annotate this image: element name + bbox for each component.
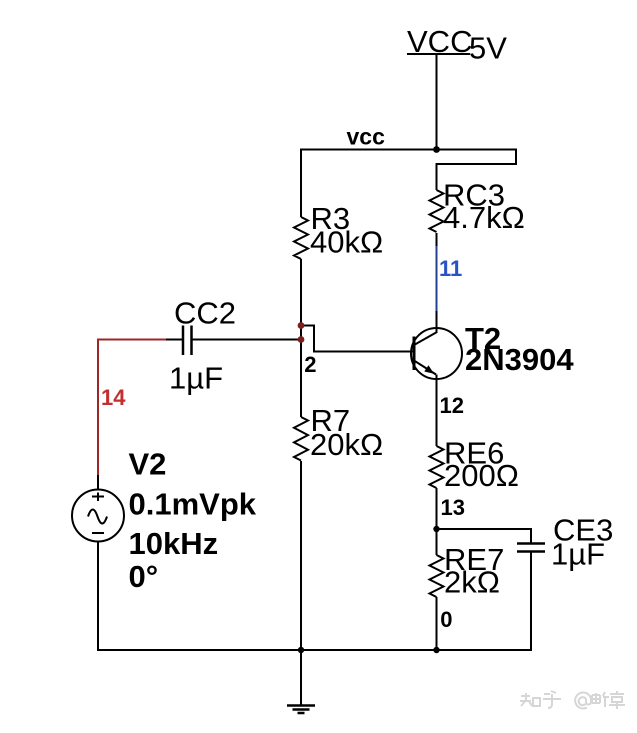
wire V2 top pin <box>97 475 99 490</box>
wire RC3 top <box>436 163 438 190</box>
svg-text:14: 14 <box>101 385 126 410</box>
svg-text:12: 12 <box>440 393 464 418</box>
svg-text:10kHz: 10kHz <box>129 526 219 561</box>
svg-text:1µF: 1µF <box>169 361 223 396</box>
svg-text:vcc: vcc <box>347 124 386 150</box>
wire CC2 right <box>192 339 302 341</box>
svg-text:0.1mVpk: 0.1mVpk <box>129 487 257 522</box>
svg-text:0°: 0° <box>129 559 159 594</box>
transistor T2 emitter arrow <box>424 365 434 374</box>
wire node 14 vertical red <box>97 339 99 476</box>
wire collector vertical <box>436 311 438 333</box>
wire CC2 left red <box>97 339 166 341</box>
wire branch to CE3 horizontal <box>436 528 532 530</box>
transistor T2 base bar <box>413 337 416 371</box>
capacitor CC2 plate right <box>190 326 193 356</box>
source V2 minus sign <box>92 532 104 534</box>
junction dot node 2 lower <box>298 336 305 343</box>
wire ground stub <box>300 650 302 706</box>
junction dot vcc <box>433 146 440 153</box>
resistor RE6 <box>430 446 444 488</box>
wire RE6 to node 13 <box>436 488 438 555</box>
wire CE3 bottom vertical <box>530 552 532 652</box>
wire base stub horizontal <box>300 325 315 327</box>
svg-text:5V: 5V <box>469 31 507 66</box>
wire RE7 to bottom <box>436 597 438 650</box>
resistor R7 <box>294 417 308 460</box>
svg-text:4.7kΩ: 4.7kΩ <box>443 200 525 235</box>
wire vcc horizontal <box>300 149 516 151</box>
wire jog horizontal <box>436 163 518 165</box>
svg-text:1µF: 1µF <box>551 537 605 572</box>
svg-text:2N3904: 2N3904 <box>465 342 574 377</box>
wire base stub vertical <box>313 325 315 353</box>
junction dot node 0 right <box>433 647 439 653</box>
junction dot node 0 ground <box>298 647 304 653</box>
svg-text:20kΩ: 20kΩ <box>310 427 383 462</box>
wire jog right vertical <box>515 149 517 165</box>
junction dot node 13 <box>433 526 439 532</box>
transistor T2 emitter diagonal <box>414 361 436 375</box>
transistor T2 circle <box>411 328 462 379</box>
wire RC3 bottom black <box>436 233 438 246</box>
svg-text:2: 2 <box>304 352 316 377</box>
svg-text:2kΩ: 2kΩ <box>444 565 500 600</box>
resistor RC3 <box>430 190 444 232</box>
junction dot node 2 upper <box>298 322 305 329</box>
resistor RE7 <box>430 555 444 597</box>
VCC underline bar <box>407 53 470 55</box>
transistor T2 collector diagonal <box>414 332 437 345</box>
wire node 11 blue <box>436 246 438 311</box>
wire R3 bottom to node 2 <box>300 259 302 417</box>
svg-text:11: 11 <box>439 256 462 281</box>
wire emitter vertical <box>436 375 438 447</box>
capacitor CE3 plate top <box>517 542 545 545</box>
svg-text:13: 13 <box>441 495 465 520</box>
svg-text:CC2: CC2 <box>174 296 236 331</box>
wire bottom horizontal <box>98 649 531 651</box>
wire CC2 left black <box>166 339 183 341</box>
ground symbol <box>287 706 315 714</box>
watermark zhihu <box>520 691 625 709</box>
svg-text:0: 0 <box>440 607 452 632</box>
power symbol VCC wire <box>436 54 438 150</box>
wire R3 top <box>300 149 302 218</box>
source V2 plus sign <box>92 493 104 502</box>
wire V2 bottom pin <box>97 542 99 652</box>
resistor R3 <box>294 217 308 259</box>
source V2 circle <box>72 490 124 542</box>
wire base horizontal <box>314 351 414 353</box>
capacitor CC2 plate left <box>182 326 185 356</box>
svg-text:200Ω: 200Ω <box>444 458 519 493</box>
svg-text:V2: V2 <box>129 447 167 482</box>
svg-text:VCC: VCC <box>407 24 472 59</box>
wire CE3 top vertical <box>530 528 532 543</box>
source V2 sine <box>88 510 107 524</box>
wire R7 bottom <box>300 461 302 650</box>
svg-text:40kΩ: 40kΩ <box>310 225 383 260</box>
capacitor CE3 plate bottom <box>517 550 545 553</box>
